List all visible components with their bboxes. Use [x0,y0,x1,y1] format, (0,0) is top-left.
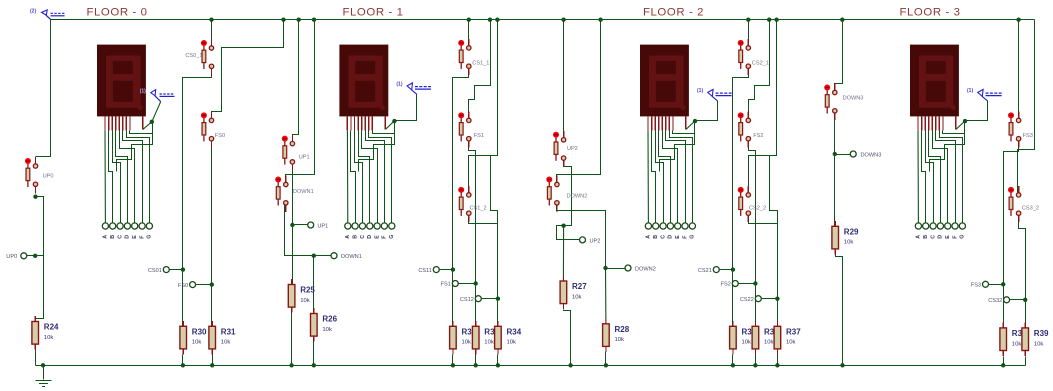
svg-text:UP1: UP1 [317,224,328,230]
wire [113,131,121,224]
terminal UP2 [580,237,601,245]
label R33 [484,328,499,346]
wire [695,101,718,121]
push button CS3_2 [1008,186,1039,222]
ground [36,366,52,387]
svg-text:R29: R29 [844,228,859,237]
wire [652,131,656,224]
resistor R31 [209,321,236,355]
terminal CS32 [988,297,1009,304]
display FLOOR-2 terminals A-G [645,223,695,239]
svg-text:FS3: FS3 [1023,133,1033,139]
junction [451,363,455,367]
wire [733,67,749,327]
svg-text:10k: 10k [1012,341,1022,347]
svg-text:CS01: CS01 [148,268,162,274]
wire [647,131,649,224]
wire [452,355,454,366]
wire [605,352,607,366]
wire [104,131,106,224]
svg-text:B: B [923,235,929,239]
wire [770,156,778,224]
7-segment display FLOOR-1 [339,45,388,117]
junction [775,363,779,367]
svg-text:DOWN3: DOWN3 [843,96,864,102]
svg-text:R34: R34 [507,328,522,337]
wire [291,313,293,366]
junction [488,18,492,22]
wire [720,269,733,271]
push button FS2 [738,112,764,148]
wire [109,131,113,224]
svg-text:CS1_1: CS1_1 [472,61,489,67]
svg-text:CS22: CS22 [740,297,754,303]
wire [469,139,476,327]
terminal CS22 [740,296,761,303]
wire [469,214,498,327]
svg-text:FLOOR - 2: FLOOR - 2 [643,7,704,19]
svg-text:10k: 10k [322,327,332,333]
7-segment display FLOOR-0 [97,45,146,117]
svg-text:CS3_2: CS3_2 [1022,206,1039,212]
wire [182,355,184,366]
svg-text:C: C [930,235,936,239]
wire [469,20,498,195]
svg-text:10k: 10k [764,340,774,346]
terminal CS21 [698,267,719,274]
junction [290,223,294,227]
svg-text:DOWN2: DOWN2 [635,267,656,273]
junction [181,267,185,271]
svg-text:A: A [646,235,652,239]
wire [313,342,315,366]
wire [748,20,750,48]
wire [440,269,453,271]
wire [468,20,470,48]
svg-text:B: B [110,235,116,239]
wire [355,131,363,224]
resistor R32 [450,321,457,355]
junction [281,18,285,22]
wire GND bottom rail [36,365,1026,367]
wire [292,162,294,285]
junction [210,282,214,286]
push button FS1 [458,112,484,148]
svg-text:FLOOR - 0: FLOOR - 0 [86,7,147,19]
svg-text:A: A [103,235,109,239]
wire [749,214,778,327]
wire [116,131,128,224]
wire [929,131,941,224]
junction [1023,298,1027,302]
svg-text:G: G [690,235,696,239]
push button CS1_2 [458,186,486,222]
resistor R28 [603,318,630,352]
wire [36,20,51,157]
net tag (1) floor 3 [967,88,1002,101]
wire [749,139,756,327]
svg-text:R30: R30 [192,328,207,337]
svg-text:G: G [960,235,966,239]
svg-text:10k: 10k [484,340,494,346]
svg-text:10k: 10k [572,294,582,300]
junction [753,281,757,285]
display FLOOR-3 segment pins [918,116,956,130]
junction [775,297,779,301]
7-segment display FLOOR-3 [910,45,959,117]
svg-text:(1): (1) [140,89,146,95]
wire [1018,20,1035,193]
junction [474,281,478,285]
svg-text:CS2_1: CS2_1 [752,61,769,67]
wire [143,122,152,130]
resistor R29 [832,221,859,255]
svg-text:DOWN3: DOWN3 [861,152,882,158]
wire [777,355,779,366]
svg-text:10k: 10k [507,340,517,346]
wire [459,283,476,285]
svg-text:10k: 10k [221,340,231,346]
terminal CS01 [148,267,169,274]
svg-text:10k: 10k [1034,341,1044,347]
svg-text:CS21: CS21 [698,268,712,274]
junction [181,363,185,367]
label R36 [764,328,779,346]
display FLOOR-2 segment pins [648,116,686,130]
wire [762,298,778,300]
svg-text:FS0: FS0 [215,133,225,139]
wire [835,154,851,156]
wire [491,156,498,224]
wire [351,131,356,224]
display FLOOR-1 segment pins [347,116,385,130]
junction [731,363,735,367]
svg-text:G: G [389,235,395,239]
svg-text:R27: R27 [572,282,587,291]
wire [152,102,161,122]
wire [1025,357,1027,366]
push button DOWN1 [275,176,314,212]
svg-text:10k: 10k [786,340,796,346]
wire [196,284,212,286]
wire [922,131,926,224]
wire [563,20,565,140]
wire [926,131,934,224]
junction [561,224,565,228]
wire [989,284,1004,286]
label R32 [462,328,477,346]
svg-text:CS0_1: CS0_1 [185,53,202,59]
junction [312,254,316,258]
svg-text:UP0: UP0 [6,254,17,260]
wire [293,20,299,144]
junction [603,266,607,270]
push button UP0 [25,157,54,193]
svg-text:A: A [345,235,351,239]
svg-text:A: A [916,235,922,239]
resistor R37 [774,321,801,355]
label R38 [1012,329,1027,347]
junction [833,152,837,156]
terminal FS2 [721,281,739,288]
7-segment display FLOOR-2 [640,45,689,117]
resistor R36 [752,321,759,355]
svg-text:FLOOR - 3: FLOOR - 3 [899,7,960,19]
wire [965,101,988,121]
terminal CS12 [460,296,481,303]
push button FS0 [201,112,225,148]
wire [836,255,843,366]
net tag (2) [30,8,65,19]
wire [933,131,948,224]
wire [211,140,213,327]
svg-text:CS1_2: CS1_2 [470,206,487,212]
junction [767,18,771,22]
wire [395,95,417,121]
push button CS0_1 [185,39,213,75]
svg-text:UP0: UP0 [43,173,54,179]
junction [1001,282,1005,286]
resistor R24 [32,316,59,350]
svg-text:D: D [125,235,131,239]
wire [170,269,183,271]
resistor R33 [472,321,479,355]
junction [312,18,316,22]
wire [1018,20,1020,121]
wire [605,268,607,324]
wire [943,131,965,134]
net tag (1) floor 0 [140,89,175,102]
svg-text:(2): (2) [30,8,36,14]
wire [940,131,963,224]
wire [359,131,370,224]
svg-text:10k: 10k [462,340,472,346]
display FLOOR-0 segment pins [105,116,143,130]
wire [557,203,625,269]
push button DOWN3 [824,84,863,120]
svg-text:B: B [352,235,358,239]
wire [285,203,331,256]
wire [739,283,756,285]
wire [666,131,686,224]
junction [33,254,37,258]
wire [286,20,315,185]
junction [496,363,500,367]
wire [936,131,956,224]
wire [1003,357,1005,366]
svg-text:E: E [675,235,681,239]
wire [930,122,965,172]
svg-text:DOWN1: DOWN1 [341,254,362,260]
push button CS1_1 [458,39,489,75]
svg-text:(1): (1) [396,82,402,88]
junction [289,363,293,367]
terminal FS3 [971,281,989,288]
svg-text:G: G [147,235,153,239]
junction [209,18,213,22]
junction [604,363,608,367]
resistor R30 [180,321,207,355]
wire [346,131,348,224]
wire [120,131,135,224]
display FLOOR-3 terminals A-G [915,223,965,239]
terminal FS0 [178,282,196,289]
wire [117,122,153,172]
wire [35,350,37,366]
wire [212,355,214,366]
wire [749,20,770,121]
net tag (1) floor 2 [697,88,732,101]
junction [774,18,778,22]
wire [211,20,213,49]
wire [835,20,843,93]
svg-text:R25: R25 [300,286,315,295]
svg-text:DOWN2: DOWN2 [567,193,588,199]
wire [369,131,392,224]
wire [497,355,499,366]
wire [917,131,919,224]
svg-text:(1): (1) [967,88,973,94]
wire [663,131,678,224]
wire [482,298,498,300]
terminal DOWN1 [331,253,362,261]
wire [686,121,695,129]
wire [27,255,44,257]
push button UP2 [553,131,578,167]
wire [732,355,734,366]
junction [474,363,478,367]
resistor R25 [288,279,315,313]
junction [753,363,757,367]
junction [150,120,154,124]
wire [755,355,757,366]
wire [359,122,395,172]
display FLOOR-1 terminals A-G [345,223,395,239]
junction [693,119,697,123]
wire [1010,299,1026,301]
wire [36,197,44,322]
wire [453,67,469,327]
svg-text:10k: 10k [44,335,54,341]
junction [297,18,301,22]
junction [1016,18,1020,22]
terminal UP1 [308,222,329,230]
display FLOOR-0 terminals A-G [102,223,152,239]
svg-text:FS2: FS2 [753,133,763,139]
wire VCC top rail [51,19,1035,21]
svg-text:10k: 10k [844,240,854,246]
svg-text:FS2: FS2 [721,282,731,288]
label R35 [742,328,757,346]
junction [1001,363,1005,367]
svg-text:R39: R39 [1034,329,1049,338]
svg-text:FS1: FS1 [474,133,484,139]
junction [496,297,500,301]
resistor R35 [730,321,737,355]
svg-text:FS0: FS0 [178,283,188,289]
wire [313,256,315,314]
push button UP1 [282,135,310,171]
junction [312,363,316,367]
svg-text:CS2_2: CS2_2 [749,206,766,212]
wire [1019,214,1026,328]
push button CS2_2 [738,186,766,222]
svg-text:D: D [938,235,944,239]
svg-text:C: C [660,235,666,239]
wire [562,226,564,281]
svg-text:C: C [360,235,366,239]
junction [746,18,750,22]
wire [1004,139,1019,328]
junction [33,195,37,199]
push button DOWN2 [546,176,587,212]
junction [731,267,735,271]
svg-text:C: C [117,235,123,239]
svg-text:FLOOR - 1: FLOOR - 1 [342,7,403,19]
svg-text:R28: R28 [615,325,630,334]
junction [840,18,844,22]
wire [660,122,695,172]
push button CS2_1 [738,39,769,75]
wire [385,121,394,129]
svg-text:CS11: CS11 [418,268,432,274]
svg-text:E: E [374,235,380,239]
wire [362,131,378,224]
svg-text:10k: 10k [192,340,202,346]
wire [673,131,695,134]
junction [210,363,214,367]
svg-text:FS1: FS1 [441,282,451,288]
svg-text:R24: R24 [44,323,59,332]
svg-text:R37: R37 [786,328,801,337]
resistor R26 [311,308,338,342]
wire [564,310,571,366]
wire [366,131,385,224]
svg-text:UP2: UP2 [567,146,578,152]
wire [659,131,671,224]
resistor R34 [495,321,522,355]
junction [840,363,844,367]
junction [963,119,967,123]
svg-text:E: E [945,235,951,239]
junction [561,18,565,22]
wire [656,131,664,224]
junction [41,363,45,367]
svg-text:CS32: CS32 [988,298,1002,304]
svg-text:R31: R31 [221,328,236,337]
svg-text:CS12: CS12 [460,297,474,303]
resistor R39 [1022,322,1049,356]
terminal DOWN2 [625,265,656,273]
svg-text:10k: 10k [300,298,310,304]
svg-text:UP2: UP2 [590,238,601,244]
terminal FS1 [441,281,459,288]
wire [749,20,777,195]
wire [475,355,477,366]
junction [568,363,572,367]
resistor R27 [560,276,587,310]
terminal UP0 [6,253,26,260]
svg-text:D: D [668,235,674,239]
svg-text:R26: R26 [322,315,337,324]
svg-text:B: B [653,235,659,239]
svg-text:10k: 10k [615,337,625,343]
wire [212,20,284,121]
resistor R38 [1000,322,1007,356]
junction [495,18,499,22]
wire [130,131,153,134]
junction [392,119,396,123]
